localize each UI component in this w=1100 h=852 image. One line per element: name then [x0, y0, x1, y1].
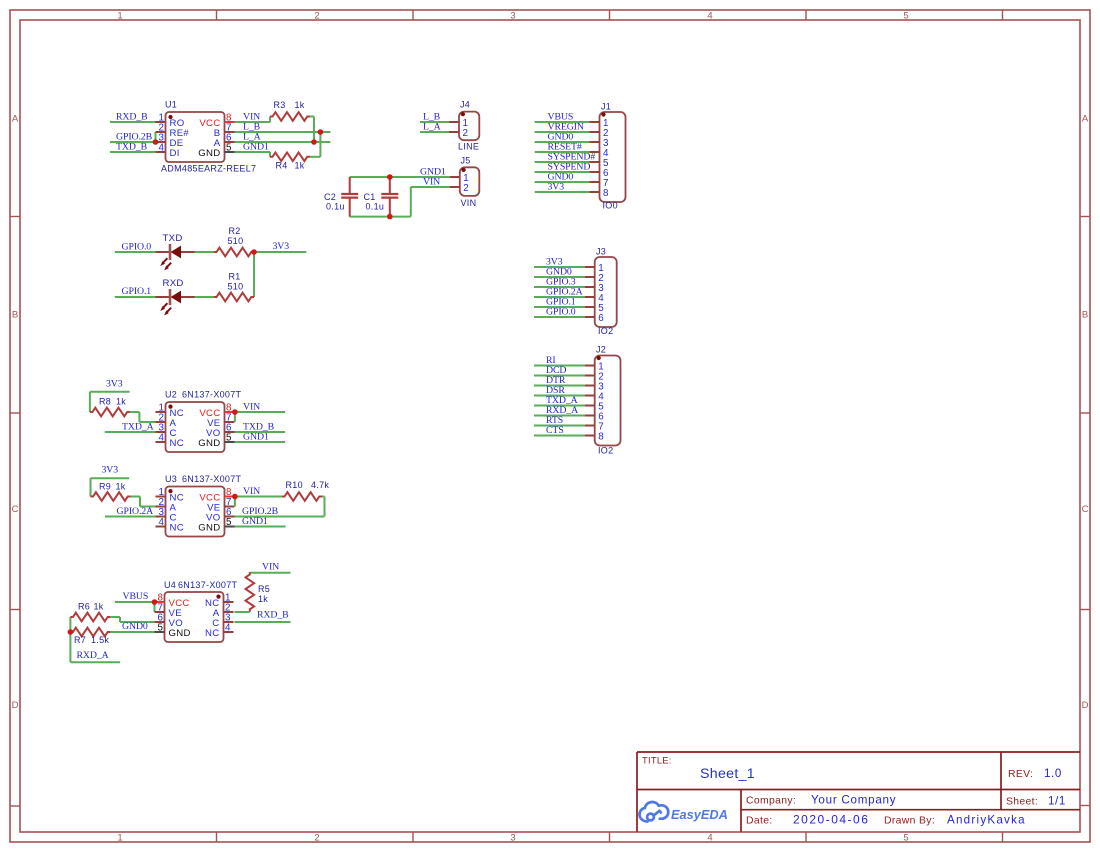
J1 pin 1 wire net VBUS: [535, 121, 590, 123]
wire GPIO.2A to U3 pin3: [105, 516, 156, 518]
resistor R3: [270, 112, 310, 121]
svg-text:C: C: [12, 504, 19, 515]
J3 pin 6 wire net GPIO.0: [534, 316, 585, 318]
U4 pin 8 VCC: [155, 601, 165, 603]
svg-text:8: 8: [603, 188, 609, 199]
resistor R2: [214, 248, 254, 257]
wire TXD_A to U2 pin3: [105, 431, 156, 433]
U3 pin 4 NC: [156, 526, 166, 528]
LED RXD: [156, 296, 171, 298]
wire 3V3 net: [254, 251, 306, 253]
svg-text:R10: R10: [286, 480, 303, 490]
svg-text:1.5k: 1.5k: [91, 635, 109, 645]
wire U1 pin8 to R3: [235, 121, 271, 123]
op-amp U1 ADM485EARZ-REEL7 body: [166, 112, 225, 162]
node junction R7 left: [68, 629, 74, 635]
svg-text:6N137-X007T: 6N137-X007T: [182, 390, 242, 400]
node junction U4 pin8: [152, 599, 158, 605]
U2 pin 3 C: [156, 431, 166, 433]
svg-text:6N137-X007T: 6N137-X007T: [182, 474, 242, 484]
svg-text:VIN: VIN: [243, 402, 260, 413]
U2 pin 8 VCC: [225, 411, 235, 413]
resistor R9: [91, 492, 131, 501]
U1 pin 8 VCC: [225, 121, 235, 123]
svg-text:5: 5: [158, 623, 164, 634]
U3 pin 5 GND: [225, 526, 235, 528]
svg-text:4: 4: [159, 517, 165, 528]
svg-text:Sheet_1: Sheet_1: [700, 766, 755, 782]
J4 pin 2: [449, 131, 459, 133]
svg-text:RXD: RXD: [163, 278, 184, 289]
connector J1 body: [600, 112, 626, 202]
svg-text:1k: 1k: [258, 594, 268, 604]
svg-text:GND1: GND1: [242, 516, 268, 527]
wire GND1 from U2 pin5: [235, 441, 286, 443]
wire VIN vertical: [410, 187, 412, 217]
U2 pin 4 NC: [156, 441, 166, 443]
svg-text:C: C: [1082, 504, 1089, 515]
J2 pin 3 wire net DTR: [534, 385, 585, 387]
svg-text:4: 4: [225, 623, 231, 634]
svg-text:NC: NC: [205, 628, 219, 639]
J1 pin 7 wire net GND0: [535, 181, 590, 183]
svg-text:GPIO.1: GPIO.1: [122, 286, 152, 297]
wire R5 bottom to U4 pin2: [235, 611, 250, 613]
svg-text:U1: U1: [165, 100, 177, 110]
svg-text:C1: C1: [364, 192, 376, 202]
U2 pin 6 VO: [225, 431, 235, 433]
svg-text:GND: GND: [169, 628, 191, 639]
svg-text:NC: NC: [170, 522, 184, 533]
svg-text:5: 5: [226, 143, 232, 154]
wire R7 to U4 pin5: [110, 631, 154, 633]
svg-text:D: D: [12, 700, 19, 711]
svg-text:R3: R3: [274, 100, 286, 110]
J2 pin 5 wire net TXD_A: [534, 405, 585, 407]
resistor R1: [214, 293, 254, 302]
svg-text:1k: 1k: [116, 397, 126, 407]
J1 pin 2 wire net VREGIN: [535, 131, 590, 133]
svg-text:4.7k: 4.7k: [311, 480, 329, 490]
capacitor C1: [389, 177, 391, 194]
J1 pin1 marker dot: [601, 112, 605, 116]
U4 pin 5 GND: [155, 631, 165, 633]
svg-text:IO2: IO2: [598, 326, 613, 336]
node junction U3 pin8 VIN: [232, 494, 238, 500]
svg-text:D: D: [1082, 700, 1089, 711]
svg-text:1.0: 1.0: [1044, 767, 1062, 780]
U1 pin 6 A: [225, 141, 235, 143]
wire GPIO.1 to LED RXD: [115, 296, 156, 298]
U3 pin 3 C: [156, 516, 166, 518]
title block outline: [637, 752, 1080, 832]
svg-text:4: 4: [159, 433, 165, 444]
wire GPIO.0 to LED TXD: [115, 251, 156, 253]
svg-text:AndriyKavka: AndriyKavka: [947, 814, 1026, 827]
J1 pin 5 wire net SYSPEND#: [535, 161, 590, 163]
svg-text:2: 2: [463, 128, 468, 139]
U1 pin 2 RE#: [156, 131, 166, 133]
wire 3V3 R9 top: [91, 477, 130, 479]
svg-text:R7: R7: [74, 635, 86, 645]
svg-text:1: 1: [117, 833, 122, 844]
svg-text:8: 8: [598, 431, 604, 442]
svg-text:1: 1: [117, 11, 122, 22]
svg-text:TXD: TXD: [163, 233, 183, 244]
svg-text:GND1: GND1: [243, 142, 269, 153]
svg-text:3V3: 3V3: [106, 379, 123, 390]
frame row ticks right: [1080, 216, 1090, 218]
J4 pin1 marker dot: [461, 112, 465, 116]
J3 pin 1 wire net 3V3: [534, 266, 585, 268]
svg-text:GND1: GND1: [243, 432, 269, 443]
svg-text:J1: J1: [601, 102, 611, 112]
svg-text:U3: U3: [165, 474, 177, 484]
svg-text:TXD_A: TXD_A: [122, 422, 154, 433]
svg-text:2020-04-06: 2020-04-06: [793, 813, 869, 827]
wire VIN from U3 pin8 to R10: [235, 496, 282, 498]
svg-text:A: A: [12, 114, 19, 125]
node junction R3 to L_A: [311, 139, 317, 145]
svg-text:C2: C2: [324, 192, 336, 202]
svg-text:0.1u: 0.1u: [366, 202, 385, 212]
svg-text:6: 6: [598, 313, 604, 324]
svg-text:A: A: [1082, 114, 1089, 125]
U4 pin1 marker dot: [216, 595, 220, 599]
svg-text:R2: R2: [229, 226, 241, 236]
resistor R8: [90, 408, 130, 417]
wire VIN top of R5: [250, 572, 291, 574]
resistor R5 vertical: [246, 572, 255, 612]
node junction R4 to L_B: [318, 129, 324, 135]
wire U2 pin8 to pin7: [234, 412, 236, 422]
svg-text:VBUS: VBUS: [123, 591, 149, 602]
svg-text:CTS: CTS: [546, 425, 564, 436]
J1 pin 4 wire net RESET#: [535, 151, 590, 153]
wire GPIO.2B to U1 pin3: [110, 141, 156, 143]
svg-text:1k: 1k: [295, 160, 305, 170]
U4 pin 6 VO: [155, 621, 165, 623]
svg-text:GND: GND: [198, 522, 220, 533]
svg-text:1k: 1k: [116, 482, 126, 492]
J5 pin 1: [450, 176, 460, 178]
wire R9 to U3 pin2: [131, 496, 141, 498]
svg-text:4: 4: [707, 11, 712, 22]
capacitor C2: [349, 177, 351, 194]
node junction U1 pin3: [153, 139, 159, 145]
svg-text:3V3: 3V3: [548, 182, 565, 193]
svg-text:J3: J3: [596, 247, 606, 257]
svg-text:510: 510: [228, 281, 244, 291]
svg-text:RXD_A: RXD_A: [77, 650, 109, 661]
wire U1 pin2 to pin3 tie: [155, 132, 157, 142]
svg-text:Company:: Company:: [746, 796, 796, 807]
J5 pin 2: [450, 186, 460, 188]
U4 pin 7 VE: [155, 611, 165, 613]
J2 pin 8 wire net CTS: [534, 435, 585, 437]
U4 pin 1 NC: [224, 601, 234, 603]
connector J3 body: [595, 257, 617, 327]
wire R6 to U4 pin6: [110, 616, 120, 618]
svg-text:VIN: VIN: [423, 176, 440, 187]
svg-text:LINE: LINE: [458, 142, 479, 152]
U1 pin 1 RO: [156, 121, 166, 123]
wire VIN from U2 pin8: [235, 411, 285, 413]
J3 pin 3 wire net GPIO.3: [534, 286, 585, 288]
svg-text:2: 2: [314, 833, 319, 844]
svg-text:3V3: 3V3: [102, 465, 119, 476]
svg-text:DI: DI: [170, 148, 180, 159]
U4 pin 2 A: [224, 611, 234, 613]
svg-text:GND: GND: [198, 438, 220, 449]
svg-text:510: 510: [228, 236, 244, 246]
svg-text:GPIO.2A: GPIO.2A: [117, 506, 154, 517]
U3 pin 8 VCC: [225, 496, 235, 498]
wire LED TXD to R2: [195, 251, 215, 253]
node junction U2 pin8 VIN: [232, 409, 238, 415]
U3 pin1 marker dot: [168, 489, 172, 493]
wire RXD_B from U4 pin3: [235, 621, 291, 623]
connector J5 body: [460, 167, 480, 196]
op-amp U2 6N137-X007T body: [166, 402, 225, 452]
svg-text:GND0: GND0: [122, 621, 148, 632]
svg-text:GPIO.0: GPIO.0: [122, 241, 152, 252]
svg-text:VIN: VIN: [461, 198, 477, 208]
U3 pin 6 VO: [225, 516, 235, 518]
svg-text:Your Company: Your Company: [811, 794, 896, 807]
J2 pin 7 wire net RTS: [534, 425, 585, 427]
wire 3V3 R8 top: [90, 391, 130, 393]
resistor R6: [70, 613, 110, 622]
svg-text:J2: J2: [596, 345, 606, 355]
resistor R4: [270, 153, 310, 162]
node junction C1 bottom: [387, 214, 393, 220]
U3 pin 1 NC: [156, 496, 166, 498]
svg-text:IO2: IO2: [598, 446, 613, 456]
op-amp U3 6N137-X007T body: [166, 487, 225, 537]
U2 pin 1 NC: [156, 411, 166, 413]
U3 pin 7 VE: [225, 506, 235, 508]
wire U4 pin8 to pin7: [154, 602, 156, 612]
svg-text:3: 3: [510, 11, 515, 22]
J3 pin 2 wire net GND0: [534, 276, 585, 278]
svg-text:L_A: L_A: [423, 122, 441, 133]
svg-text:U4: U4: [164, 580, 176, 590]
svg-text:R9: R9: [99, 482, 111, 492]
wire RXD_B to U1 pin1: [110, 121, 156, 123]
svg-text:U2: U2: [165, 390, 177, 400]
svg-text:1k: 1k: [94, 602, 104, 612]
J2 pin 6 wire net RXD_A: [534, 415, 585, 417]
wire GND1 from U3 pin5: [235, 526, 286, 528]
node junction C1 top: [387, 174, 393, 180]
LED TXD: [156, 251, 171, 253]
U1 pin 3 DE: [156, 141, 166, 143]
U4 pin 3 C: [224, 621, 234, 623]
U2 pin1 marker dot: [168, 405, 172, 409]
wire VIN to J5 pin2: [411, 186, 450, 188]
svg-text:IO0: IO0: [603, 201, 618, 211]
svg-text:R4: R4: [276, 160, 288, 170]
U1 pin 7 B: [225, 131, 235, 133]
wire VBUS to U4 pin8: [115, 601, 155, 603]
svg-text:2: 2: [314, 11, 319, 22]
U1 pin 4 DI: [156, 151, 166, 153]
wire left bus vertical R6/R7: [69, 617, 71, 662]
svg-text:R8: R8: [99, 397, 111, 407]
svg-text:1/1: 1/1: [1048, 795, 1066, 808]
svg-text:GND: GND: [198, 148, 220, 159]
svg-text:1k: 1k: [295, 100, 305, 110]
svg-text:5: 5: [226, 433, 232, 444]
J4 pin 1: [449, 121, 459, 123]
wire RXD_A horizontal: [70, 661, 120, 663]
svg-text:5: 5: [226, 517, 232, 528]
svg-text:Sheet:: Sheet:: [1006, 797, 1038, 808]
svg-text:R6: R6: [78, 602, 90, 612]
U2 pin 2 A: [156, 421, 166, 423]
U1 pin 5 GND: [225, 151, 235, 153]
J2 pin 4 wire net DSR: [534, 395, 585, 397]
wire R8 to U2 pin2: [130, 411, 140, 413]
wire 3V3 down to R9: [90, 478, 92, 496]
J1 pin 3 wire net GND0: [535, 141, 590, 143]
wire LED RXD to R1: [195, 296, 215, 298]
wire GPIO.2B from U3 pin6: [235, 516, 325, 518]
connector J2 body: [595, 356, 621, 446]
wire TXD_B from U2 pin6: [235, 431, 286, 433]
frame column ticks bottom: [216, 832, 218, 842]
J2 pin 2 wire net DCD: [534, 375, 585, 377]
svg-text:3V3: 3V3: [273, 241, 290, 252]
wire GND1 top rail: [350, 176, 450, 178]
svg-text:REV:: REV:: [1008, 769, 1033, 780]
frame row ticks left: [10, 216, 20, 218]
wire bottom rail: [350, 216, 411, 218]
U2 pin 5 GND: [225, 441, 235, 443]
op-amp U4 6N137-X007T body: [165, 592, 224, 642]
resistor R10: [282, 492, 322, 501]
svg-text:J4: J4: [460, 100, 470, 110]
wire R4 right up to L_B net: [310, 156, 320, 158]
wire junction down to R1: [253, 252, 255, 297]
svg-text:ADM485EARZ-REEL7: ADM485EARZ-REEL7: [161, 163, 256, 173]
wire R10 down to GPIO.2B: [322, 496, 325, 498]
wire U1 pin5 GND1 to R4: [235, 151, 271, 153]
U1 pin1 marker dot: [168, 115, 172, 119]
svg-text:3: 3: [510, 833, 515, 844]
svg-text:4: 4: [159, 143, 165, 154]
svg-text:TXD_B: TXD_B: [116, 141, 148, 152]
frame column ticks top: [216, 10, 218, 20]
J1 pin 8 wire net 3V3: [535, 191, 590, 193]
svg-text:5: 5: [903, 11, 908, 22]
wire L_B to J4 pin1: [420, 121, 449, 123]
svg-text:TITLE:: TITLE:: [642, 756, 672, 766]
wire 3V3 down to R8: [89, 392, 91, 412]
svg-text:4: 4: [707, 833, 712, 844]
svg-text:EasyEDA: EasyEDA: [671, 807, 728, 822]
svg-text:RXD_B: RXD_B: [116, 112, 148, 123]
svg-text:J5: J5: [461, 155, 471, 165]
resistor R7: [70, 628, 110, 637]
svg-text:5: 5: [903, 833, 908, 844]
U4 pin 4 NC: [224, 631, 234, 633]
J2 pin 1 wire net RI: [534, 365, 585, 367]
wire L_A to J4 pin2: [420, 131, 449, 133]
svg-text:Drawn By:: Drawn By:: [884, 816, 935, 827]
J2 pin1 marker dot: [597, 356, 601, 360]
svg-text:Date:: Date:: [746, 816, 773, 827]
node junction R2 to 3V3: [251, 249, 257, 255]
wire U3 pin8 to pin7: [234, 497, 236, 507]
svg-text:RXD_B: RXD_B: [257, 610, 289, 621]
svg-text:B: B: [12, 310, 18, 321]
svg-text:GPIO.0: GPIO.0: [546, 307, 576, 318]
svg-text:NC: NC: [170, 438, 184, 449]
wire L_A from U1 pin6: [235, 141, 331, 143]
EasyEDA logo cloud: [640, 802, 669, 822]
wire R3 right to L_A net: [310, 116, 314, 118]
svg-text:2: 2: [463, 183, 468, 194]
svg-text:VIN: VIN: [262, 561, 279, 572]
connector J4 body: [459, 112, 479, 141]
svg-text:R1: R1: [229, 272, 241, 282]
svg-text:R5: R5: [258, 584, 270, 594]
J5 pin1 marker dot: [462, 168, 466, 172]
J1 pin 6 wire net SYSPEND: [535, 171, 590, 173]
wire L_B from U1 pin7: [235, 131, 331, 133]
U2 pin 7 VE: [225, 421, 235, 423]
J3 pin 5 wire net GPIO.1: [534, 306, 585, 308]
J3 pin 4 wire net GPIO.2A: [534, 296, 585, 298]
svg-text:VIN: VIN: [243, 486, 260, 497]
svg-text:0.1u: 0.1u: [326, 202, 345, 212]
U3 pin 2 A: [156, 506, 166, 508]
svg-text:B: B: [1082, 310, 1088, 321]
svg-text:6N137-X007T: 6N137-X007T: [178, 580, 238, 590]
wire TXD_B to U1 pin4: [110, 151, 156, 153]
